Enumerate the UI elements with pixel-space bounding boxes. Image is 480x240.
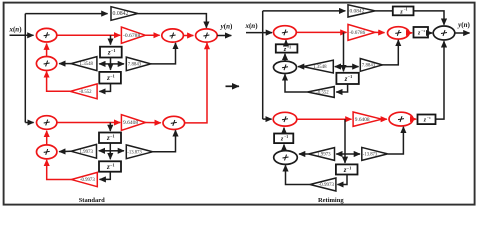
wire tap V1 line to node n1 — [343, 32, 345, 71]
svg-text:Retiming: Retiming — [318, 197, 344, 204]
adder U7 (stage2 output, red) — [163, 116, 185, 129]
wire ZD1 to gain C2a — [336, 84, 347, 92]
gain C2b -0.9973 — [310, 178, 336, 191]
wire A2b to adder U6 bottom (red) — [47, 160, 72, 180]
wire tap to delay Z1b — [109, 123, 111, 132]
wire node n1 to gain D1a — [344, 66, 359, 68]
adder V1 (stage1 input, red) — [274, 26, 297, 39]
gain C2a -0.552 — [308, 87, 335, 98]
gain B1b -13.873 — [126, 145, 152, 159]
wire node n2 to gain C1b — [336, 153, 345, 155]
svg-text:0.0842: 0.0842 — [113, 11, 129, 17]
svg-text:1.3548: 1.3548 — [80, 62, 94, 67]
svg-text:-0.552: -0.552 — [79, 90, 92, 95]
adder V6 (stage2 feedback, black) — [274, 151, 298, 165]
svg-text:9.6408: 9.6408 — [355, 117, 370, 123]
wire H0 to delay ZT — [375, 10, 393, 12]
wire ZM to adder V4 — [428, 32, 432, 34]
wire C2a to adder V2 bottom — [285, 74, 308, 92]
gain D1a 7.8843 — [360, 59, 382, 72]
wire V4 to y(n) — [455, 32, 470, 34]
svg-text:7.8843: 7.8843 — [128, 63, 142, 68]
svg-text:−1: −1 — [347, 165, 351, 170]
gain D1b -13.873 — [362, 147, 388, 160]
wire U6 to U5 (red) — [46, 131, 48, 145]
wire D1b to adder V7 bottom — [388, 127, 404, 154]
svg-text:-0.6788: -0.6788 — [123, 33, 140, 39]
wire node w1a to gain B1a — [111, 63, 125, 65]
delay ZD1 z^-1 (stage1) — [336, 73, 358, 84]
svg-text:−1: −1 — [404, 8, 408, 12]
adder V5 (stage2 input, red) — [273, 112, 297, 126]
adder U5 (stage2 input, red) — [37, 116, 57, 130]
adder V2 (stage1 feedback, black) — [274, 61, 297, 73]
svg-text:−1: −1 — [110, 74, 114, 79]
svg-text:−1: −1 — [427, 116, 431, 120]
svg-text:Standard: Standard — [79, 197, 105, 204]
svg-text:−1: −1 — [421, 29, 425, 33]
wire D0b to adder V7 (red) — [382, 118, 387, 120]
wire tap V5 line to node n2 — [344, 119, 346, 163]
wire node n2 to gain D1b — [345, 153, 360, 155]
svg-text:-13.873: -13.873 — [127, 150, 142, 155]
wire C2b to adder V6 bottom — [286, 165, 311, 184]
wire input x(n) to adder U1 — [10, 34, 34, 36]
wire V6 to ZF2 (up) — [283, 145, 285, 151]
wire B1b to adder U7 bottom — [153, 130, 176, 152]
gain C1b 1.9973 — [309, 148, 335, 161]
svg-text:−1: −1 — [111, 48, 115, 53]
wire B0a to adder U3 (red) — [145, 34, 159, 36]
wire node w1b to gain A1b — [99, 150, 111, 152]
wire U7 to adder U4 bottom (red) — [185, 43, 207, 123]
gain B0a -0.6788 (red) — [121, 27, 145, 43]
wire node n1 to gain C1a — [335, 66, 344, 68]
delay ZM z^-1 (mid) — [414, 27, 429, 38]
wire U5 to gain B0b (red) — [57, 122, 120, 124]
delay ZF2 z^-1 (stage2 feedback) — [274, 134, 293, 144]
wire tap to delay Z1a — [110, 35, 112, 44]
adder V3 (pipelined, red) — [388, 27, 410, 39]
svg-text:1.3548: 1.3548 — [313, 65, 327, 70]
wire V5 to gain D0b (red) — [297, 118, 352, 120]
svg-text:−1: −1 — [110, 162, 114, 167]
svg-text:1.9973: 1.9973 — [79, 150, 93, 155]
delay Z2b z^-1 — [99, 161, 121, 171]
svg-text:y(n): y(n) — [457, 21, 470, 29]
adder U3 (stage1 output, red) — [162, 29, 184, 42]
wire ZF1 to V1 (up) — [285, 40, 287, 44]
delay ZD2 z^-1 (stage2) — [336, 164, 358, 174]
wire V3 to delay ZM (red) — [409, 32, 412, 34]
wire ZT to adder V4 top — [414, 11, 445, 25]
wire Z2b to gain A2b — [100, 172, 111, 180]
svg-text:−1: −1 — [348, 74, 352, 79]
wire V2 to ZF1 (up) — [284, 54, 286, 61]
wire A2a to adder U2 bottom (red) — [47, 71, 71, 91]
delay ZF1 z^-1 (stage1 feedback) — [276, 44, 298, 53]
delay Z1a z^-1 — [100, 47, 122, 58]
svg-text:−1: −1 — [284, 135, 288, 139]
wire U3 to U4 (red) — [183, 35, 193, 37]
wire A1b to adder U6 — [59, 150, 71, 152]
adder U2 (stage1 feedback, red) — [36, 57, 56, 71]
gain D0a -0.6786 (red) — [348, 24, 375, 40]
gain C1a 1.3548 — [303, 60, 333, 73]
gain B1a 7.8843 — [126, 57, 151, 71]
wire feed to adder U5 — [25, 122, 33, 124]
gain A1a 1.3548 — [71, 57, 97, 71]
svg-text:−1: −1 — [110, 134, 114, 139]
wire U2 to U1 (red) — [46, 44, 48, 57]
adder U4 (global output, red) — [196, 29, 218, 42]
svg-text:−1: −1 — [287, 45, 291, 49]
wire A1a to adder U2 — [59, 63, 71, 65]
svg-text:-0.552: -0.552 — [316, 91, 329, 96]
gain D0b 9.6408 (red) — [353, 112, 382, 126]
gain B0b 9.6408 (red) — [121, 115, 145, 131]
svg-text:-0.6786: -0.6786 — [349, 30, 365, 36]
wire C1b to adder V6 — [299, 153, 309, 155]
wire feed to adder V5 — [263, 118, 272, 120]
wire ZD2 to gain C2b — [337, 175, 347, 185]
svg-text:y(n): y(n) — [220, 23, 233, 31]
wire B0b to adder U7 (red) — [146, 122, 161, 124]
svg-text:9.6408: 9.6408 — [123, 120, 138, 126]
adder V4 (output, black) — [433, 26, 455, 40]
wire D1a to adder V3 bottom — [382, 40, 398, 65]
svg-text:7.8843: 7.8843 — [362, 64, 376, 69]
wire V1 to gain D0a (red) — [296, 31, 346, 33]
wire B1a to adder U3 bottom — [151, 43, 176, 64]
svg-text:1.9973: 1.9973 — [317, 153, 331, 158]
wire V7 to delay ZMb (red) — [413, 118, 416, 120]
adder V7 (pipelined, red) — [389, 112, 413, 126]
wire input x(n) to adder V1 — [246, 32, 272, 34]
wire feed to gain H0 — [263, 10, 346, 12]
wire feed to gain G0 — [25, 13, 107, 15]
svg-text:-13.873: -13.873 — [363, 153, 378, 158]
delay Z2a z^-1 — [99, 72, 121, 84]
wire U4 to y(n) — [217, 35, 231, 37]
gain A1b 1.9973 — [71, 144, 96, 158]
svg-text:x(n): x(n) — [8, 26, 22, 34]
gain A2a -0.552 (red) — [70, 84, 97, 99]
wire node w1a to gain A1a — [99, 63, 110, 65]
wire U1 to gain B0a (red) — [57, 34, 120, 36]
gain H0 0.0842 — [348, 5, 375, 17]
adder U6 (stage2 feedback, red) — [37, 145, 57, 159]
wire Z1a to Z2a — [110, 58, 112, 70]
wire ZMb to adder V4 bottom — [436, 41, 445, 119]
svg-text:-0.9973: -0.9973 — [80, 178, 95, 183]
wire node w1b to gain B1b — [110, 150, 124, 152]
wire C1a to adder V2 — [298, 66, 303, 68]
gain A2b -0.9973 (red) — [71, 172, 97, 186]
adder U1 (stage1 input, red) — [36, 28, 56, 42]
delay Z1b z^-1 — [99, 133, 121, 144]
gain G0 0.0842 — [111, 7, 138, 21]
wire Z1b to Z2b — [109, 143, 111, 159]
svg-text:x(n): x(n) — [244, 22, 258, 30]
svg-text:0.0842: 0.0842 — [350, 9, 365, 15]
wire D0a to adder V3 (red) — [375, 31, 385, 33]
delay ZMb z^-1 (stage2 out) — [418, 115, 436, 125]
wire Z2a to gain A2a — [99, 84, 110, 92]
wire input feed vertical (right) — [262, 11, 264, 119]
wire G0 to adder U4 top — [138, 14, 207, 28]
wire ZF2 to V5 (up) — [283, 128, 285, 134]
transform arrow — [226, 85, 240, 87]
svg-text:-0.9973: -0.9973 — [319, 183, 335, 188]
delay ZT z^-1 (top) — [393, 7, 414, 16]
wire input feed vertical (left) — [24, 14, 26, 123]
